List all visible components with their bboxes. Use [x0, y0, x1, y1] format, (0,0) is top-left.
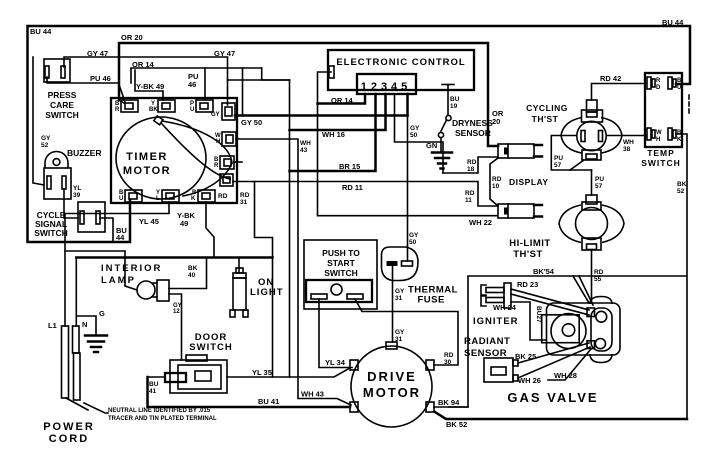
wire YL45 — [65, 202, 169, 326]
thermal fuse terminal open — [402, 261, 413, 266]
gas valve diagonal feeds — [573, 276, 589, 303]
timer terminal BR top — [121, 100, 138, 112]
thermal fuse terminal filled — [387, 261, 398, 266]
svg-text:GY: GY — [409, 232, 419, 239]
svg-text:FUSE: FUSE — [418, 295, 445, 306]
wire BK94 — [434, 406, 468, 408]
svg-text:B: B — [677, 130, 682, 136]
svg-text:31: 31 — [240, 199, 248, 206]
wire BU44 hidden dashed — [688, 95, 690, 113]
svg-text:TH'ST: TH'ST — [513, 249, 543, 260]
svg-text:MOTOR: MOTOR — [123, 165, 171, 177]
svg-text:RD: RD — [492, 176, 502, 183]
svg-text:YL 34: YL 34 — [325, 358, 346, 367]
svg-text:U: U — [677, 85, 681, 91]
wire cycle switch to BU44 bus — [100, 218, 113, 242]
interior lamp wire from L1 — [65, 251, 137, 290]
motor terminal left-upper — [350, 360, 358, 370]
svg-text:GAS VALVE: GAS VALVE — [507, 390, 598, 405]
temp switch box — [645, 73, 682, 147]
svg-text:38: 38 — [623, 146, 631, 153]
svg-text:RD 23: RD 23 — [517, 280, 538, 289]
cycle signal switch — [78, 202, 105, 232]
svg-text:BU 41: BU 41 — [258, 397, 279, 406]
display connector bottom — [498, 204, 542, 218]
dryness sensor switch circle 2 — [438, 132, 443, 137]
svg-text:INTERIOR: INTERIOR — [101, 263, 162, 274]
timer terminal PU top — [196, 100, 213, 112]
svg-text:TIMER: TIMER — [126, 151, 168, 163]
svg-text:52: 52 — [41, 142, 49, 149]
svg-text:BK: BK — [149, 107, 158, 113]
svg-text:CYCLING: CYCLING — [526, 103, 568, 113]
wire RD55 — [591, 250, 593, 303]
svg-text:NEUTRAL LINE IDENTIFIED BY .01: NEUTRAL LINE IDENTIFIED BY .015 — [108, 408, 211, 414]
wire BR15 — [290, 94, 376, 171]
svg-text:GY: GY — [211, 112, 220, 118]
svg-text:WH 22: WH 22 — [469, 218, 492, 227]
svg-text:CORD: CORD — [49, 433, 89, 445]
svg-text:57: 57 — [595, 183, 603, 190]
svg-text:BR 15: BR 15 — [339, 162, 360, 171]
svg-text:GY 47: GY 47 — [87, 49, 108, 58]
timer terminal GY right-top — [222, 103, 235, 120]
svg-text:PU: PU — [595, 176, 604, 183]
radiant sensor box — [484, 358, 518, 382]
svg-text:GY: GY — [410, 125, 420, 132]
wire OR14 vertical long — [289, 80, 291, 377]
gas valve body — [542, 297, 620, 363]
timer cam nub — [154, 116, 163, 125]
interior lamp bulb — [137, 280, 169, 301]
svg-text:WH: WH — [300, 140, 311, 147]
svg-text:20: 20 — [492, 117, 500, 126]
svg-text:W: W — [656, 130, 662, 136]
timer cam leaf curve 3 — [183, 163, 232, 196]
svg-text:RADIANT: RADIANT — [464, 336, 510, 347]
svg-text:BU: BU — [149, 381, 159, 388]
power cord N prong — [73, 326, 81, 400]
display connector top — [498, 144, 542, 158]
push switch slot right — [347, 294, 363, 299]
svg-text:GY: GY — [395, 329, 405, 336]
svg-text:D: D — [656, 85, 661, 91]
svg-text:10: 10 — [492, 183, 500, 190]
thermal fuse body — [382, 247, 419, 281]
wire EC pin1 OR14 — [318, 94, 366, 104]
wire x317 riser — [318, 72, 498, 216]
svg-text:U: U — [119, 196, 123, 202]
push switch slot left — [311, 294, 327, 299]
push switch body — [306, 280, 372, 302]
press care switch — [44, 59, 70, 82]
buzzer — [44, 152, 71, 200]
wire EC pin4 — [395, 94, 444, 173]
motor terminal right-upper — [426, 360, 434, 370]
gas valve box — [448, 276, 687, 407]
svg-text:START: START — [327, 258, 356, 268]
svg-text:GY: GY — [41, 135, 51, 142]
neutral note pointer — [84, 403, 108, 413]
wire YL35 — [227, 368, 350, 377]
timer terminal BK bottom — [198, 190, 215, 202]
svg-text:OR 14: OR 14 — [132, 60, 155, 69]
motor terminal top — [386, 342, 397, 349]
wire BU41 bus — [148, 377, 351, 407]
timer terminal WH right — [222, 132, 236, 146]
temp switch pin BU — [668, 77, 676, 89]
ground symbol GN — [432, 153, 452, 169]
svg-text:DISPLAY: DISPLAY — [509, 177, 549, 187]
svg-text:R: R — [656, 78, 661, 84]
svg-text:50: 50 — [410, 132, 418, 139]
svg-text:MOTOR: MOTOR — [363, 385, 421, 400]
svg-text:DRIVE: DRIVE — [367, 369, 417, 384]
svg-text:TEMP: TEMP — [647, 148, 675, 158]
timer cam leaf curve 1 — [162, 121, 232, 163]
svg-text:TH'ST: TH'ST — [532, 114, 559, 124]
svg-text:RD: RD — [465, 190, 475, 197]
wire RD10 — [490, 158, 498, 206]
door switch — [165, 355, 227, 393]
svg-text:41: 41 — [149, 388, 157, 395]
wire BU27 — [511, 302, 546, 340]
svg-text:GN: GN — [426, 141, 437, 150]
svg-text:WH 43: WH 43 — [301, 390, 324, 399]
wire OR20 into BR terminal — [119, 100, 124, 103]
timer terminal YL bottom — [162, 190, 179, 202]
wire OR14 top-left — [131, 68, 205, 100]
svg-text:G: G — [99, 309, 105, 318]
timer motor box — [111, 98, 237, 203]
wire GY52 left drop to buzzer — [33, 57, 44, 185]
svg-text:50: 50 — [409, 239, 417, 246]
temp switch pin RD — [647, 77, 655, 89]
timer terminal BR right — [220, 156, 234, 169]
wire GY47 tjunction — [228, 79, 290, 81]
svg-text:BK 25: BK 25 — [515, 352, 536, 361]
wire push right slot to RD30 — [355, 299, 458, 365]
wire RD18 — [443, 157, 498, 173]
svg-text:SWITCH: SWITCH — [641, 158, 681, 168]
wire BK40 lamp to bus — [169, 258, 207, 289]
svg-text:YL: YL — [73, 185, 81, 192]
wire YL34 — [319, 299, 352, 368]
svg-text:B: B — [677, 78, 682, 84]
svg-text:30: 30 — [444, 359, 452, 366]
electronic control box — [328, 50, 474, 90]
svg-text:WH 16: WH 16 — [322, 130, 345, 139]
svg-text:PU 46: PU 46 — [90, 74, 111, 83]
wire YL39 buzzer to cycle switch — [64, 189, 78, 218]
svg-text:BU 44: BU 44 — [662, 18, 684, 27]
timer terminal BU bottom — [125, 190, 142, 202]
ground symbol power — [85, 336, 107, 353]
drive motor circle — [351, 346, 432, 427]
svg-text:GY 47: GY 47 — [214, 49, 235, 58]
svg-text:L1: L1 — [48, 321, 57, 330]
motor terminal left-lower — [350, 402, 358, 412]
svg-text:DRYNESS: DRYNESS — [452, 118, 493, 128]
thermal fuse stem — [407, 246, 409, 261]
svg-text:RD: RD — [467, 159, 477, 166]
wire cycling left PU57 — [551, 136, 591, 171]
wire BR right terminal short — [234, 161, 242, 163]
svg-text:12: 12 — [173, 309, 180, 315]
cycling thermostat — [561, 100, 622, 160]
svg-text:49: 49 — [180, 219, 188, 228]
dryness sensor lever — [441, 121, 446, 131]
svg-text:SWITCH: SWITCH — [189, 342, 232, 353]
push switch button — [331, 284, 342, 295]
svg-text:H: H — [216, 139, 220, 145]
svg-text:HI-LIMIT: HI-LIMIT — [509, 238, 550, 249]
wire WH43 vertical — [236, 139, 351, 405]
wire GY12 lamp to door switch — [169, 294, 182, 360]
wire Y-BK49 from BK terminal — [206, 202, 214, 258]
wire riser x242 — [242, 68, 244, 116]
svg-text:31: 31 — [395, 295, 403, 302]
wire RD11 from RD terminal — [233, 182, 498, 207]
svg-text:BK'54: BK'54 — [533, 267, 555, 276]
svg-text:GY: GY — [395, 288, 405, 295]
svg-text:N: N — [82, 320, 87, 329]
wire to ground — [440, 138, 442, 152]
svg-text:RD: RD — [240, 192, 250, 199]
wire RD31 branch — [255, 182, 273, 378]
power cord L1 prong — [62, 326, 69, 398]
svg-text:PUSH TO: PUSH TO — [322, 248, 360, 258]
wire cycling right to temp switch — [607, 135, 647, 137]
wire ground branch — [76, 316, 96, 335]
svg-text:U: U — [190, 107, 194, 113]
svg-text:39: 39 — [73, 192, 81, 199]
svg-text:18: 18 — [467, 166, 475, 173]
svg-text:CARE: CARE — [50, 100, 74, 110]
wire GY31 fuse to motor — [392, 266, 394, 342]
svg-text:K: K — [677, 137, 682, 143]
wire WH28 — [548, 349, 591, 380]
svg-text:LIGHT: LIGHT — [250, 287, 284, 298]
svg-text:BK 52: BK 52 — [446, 420, 467, 429]
svg-text:IGNITER: IGNITER — [473, 316, 519, 327]
svg-text:55: 55 — [594, 276, 602, 283]
wire BU44 outer loop — [28, 26, 691, 242]
motor terminal right-lower — [426, 402, 434, 412]
svg-text:BU 44: BU 44 — [30, 27, 52, 36]
EC left pin — [329, 66, 334, 78]
svg-text:46: 46 — [188, 80, 196, 89]
push to start switch box — [304, 240, 377, 309]
svg-text:GY 50: GY 50 — [241, 118, 262, 127]
svg-text:YL 45: YL 45 — [139, 217, 159, 226]
svg-text:SENSOR: SENSOR — [455, 128, 491, 138]
svg-text:44: 44 — [116, 233, 125, 242]
EC 12345 box — [357, 74, 416, 94]
timer terminal Y-BK top — [158, 100, 175, 112]
svg-text:57: 57 — [554, 162, 562, 169]
igniter connector — [481, 283, 511, 308]
wire EC pin5 riser and GY50 drop — [406, 94, 409, 116]
svg-text:ELECTRONIC CONTROL: ELECTRONIC CONTROL — [336, 57, 465, 68]
EC T-bar connector — [442, 85, 454, 116]
svg-text:PU: PU — [554, 155, 563, 162]
svg-text:SWITCH: SWITCH — [324, 268, 358, 278]
svg-text:RD: RD — [594, 269, 604, 276]
wire WH26 — [518, 347, 590, 378]
wire BK25 — [518, 343, 589, 363]
svg-text:R: R — [214, 163, 219, 169]
timer terminal RD right — [220, 174, 233, 186]
svg-text:OR 20: OR 20 — [121, 33, 143, 42]
svg-text:WH 28: WH 28 — [554, 371, 577, 380]
svg-text:PRESS: PRESS — [48, 90, 77, 100]
wire GY50 main — [235, 114, 408, 117]
svg-text:WH: WH — [623, 139, 634, 146]
on light lamp — [230, 268, 248, 317]
svg-text:TRACER AND TIN PLATED TERMINAL: TRACER AND TIN PLATED TERMINAL — [108, 416, 217, 422]
svg-text:RD: RD — [218, 193, 228, 200]
wire Y-BK49 top — [135, 70, 163, 100]
wire WH16 — [290, 94, 386, 130]
svg-text:40: 40 — [188, 272, 196, 279]
wire PU57 diag — [570, 160, 584, 170]
svg-text:11: 11 — [465, 197, 472, 204]
svg-text:RD 42: RD 42 — [600, 74, 621, 83]
wire OR14 jog to vertical — [262, 68, 290, 80]
svg-text:Y-BK 49: Y-BK 49 — [136, 82, 164, 91]
svg-text:BU: BU — [450, 96, 460, 103]
svg-text:WH 24: WH 24 — [493, 303, 517, 312]
wire RD42 — [592, 84, 647, 101]
wire OR14 continue — [205, 67, 262, 69]
wire PU57 to hi-limit — [591, 170, 593, 195]
svg-text:SWITCH: SWITCH — [34, 228, 68, 238]
svg-text:LAMP: LAMP — [101, 275, 136, 286]
svg-text:RD: RD — [444, 352, 454, 359]
temp switch pin WH — [647, 128, 655, 140]
temp switch pin BK — [668, 128, 676, 140]
svg-text:BUZZER: BUZZER — [67, 148, 101, 158]
svg-text:43: 43 — [300, 147, 308, 154]
wire BK52 — [676, 134, 687, 419]
timer motor circle — [116, 117, 206, 199]
svg-text:BK: BK — [677, 181, 687, 188]
svg-text:BK 94: BK 94 — [438, 398, 460, 407]
svg-text:RD 11: RD 11 — [342, 183, 363, 192]
svg-text:WH 26: WH 26 — [518, 376, 541, 385]
wire BK52 bottom — [435, 412, 687, 419]
svg-text:SWITCH: SWITCH — [45, 110, 79, 120]
wire GY47 — [64, 57, 228, 105]
svg-text:12345: 12345 — [361, 81, 412, 93]
svg-text:52: 52 — [677, 188, 685, 195]
svg-text:OR 14: OR 14 — [331, 96, 354, 105]
wire N line to on-light — [75, 258, 77, 327]
wire BU41 into door connector — [148, 376, 166, 378]
igniter wires to valve — [511, 289, 589, 310]
svg-text:H: H — [656, 137, 660, 143]
svg-text:L: L — [156, 196, 160, 202]
hi-limit thermostat — [559, 195, 624, 250]
timer cam leaf curve 2 — [162, 124, 230, 179]
on light riser — [238, 258, 240, 273]
svg-text:K: K — [191, 196, 196, 202]
svg-text:POWER: POWER — [43, 421, 95, 433]
wire OR20 top — [119, 43, 498, 146]
svg-text:19: 19 — [450, 103, 458, 110]
svg-text:BK: BK — [188, 265, 198, 272]
power cord diagonal — [66, 398, 88, 410]
dryness sensor switch circle 1 — [446, 115, 451, 120]
wire PU46 — [47, 77, 125, 102]
svg-text:R: R — [115, 107, 120, 113]
svg-text:YL 35: YL 35 — [252, 368, 272, 377]
